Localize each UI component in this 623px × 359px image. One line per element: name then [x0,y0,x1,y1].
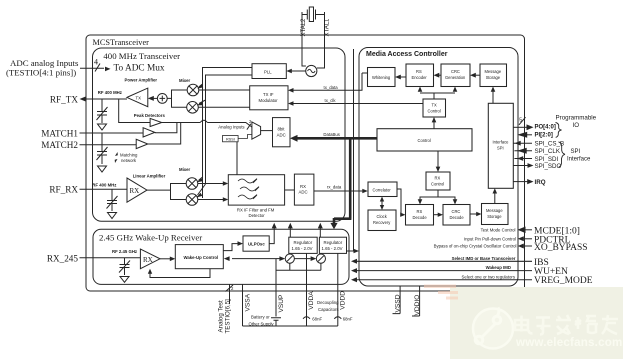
mixer M2 [187,102,199,114]
svg-text:Power Amplifier: Power Amplifier [125,78,158,83]
svg-text:Control: Control [418,138,431,143]
wire summer to TX amp [148,96,158,101]
bus DataBus thick [290,135,377,142]
svg-text:XO_BYPASS: XO_BYPASS [534,243,588,253]
wire D3 out [148,123,181,145]
wire RSdec to CRCdec [434,213,444,217]
pin SPI_CS_B [513,141,564,148]
svg-text:TESTIO[6,5]: TESTIO[6,5] [225,299,232,334]
svg-text:8bit: 8bit [278,127,286,132]
svg-text:Decode: Decode [413,215,428,220]
svg-text:RF_RX: RF_RX [49,185,78,195]
wire D1 out [162,120,252,127]
svg-text:Analog Inputs: Analog Inputs [218,125,244,130]
svg-text:Interface: Interface [493,140,510,145]
svg-text:Capacitors: Capacitors [318,307,339,312]
brace spi interface [559,142,566,167]
svg-text:Correlator: Correlator [373,187,392,192]
svg-text:VSUP: VSUP [278,294,285,313]
box Interface SPI [488,103,513,188]
svg-text:SPI: SPI [571,149,581,155]
switch SW1 [285,253,294,264]
svg-text:Linear Amplifier: Linear Amplifier [133,174,166,179]
svg-text:Storage: Storage [486,75,501,80]
svg-text:2.45 GHz Wake-Up Receiver: 2.45 GHz Wake-Up Receiver [99,232,202,242]
svg-text:RS: RS [417,209,423,214]
box PLL [252,64,286,79]
wire LO line B [206,75,253,184]
mux analog inputs [252,122,261,139]
svg-text:5: 5 [519,118,522,124]
mixer M4 [186,194,198,206]
wire MsgStor to CRCgen [470,73,480,78]
capacitor tunable at RX_245 [119,258,130,283]
wire reg1 up arrow [288,223,293,237]
wire WakeUpCtrl to ULPOsc [223,241,243,250]
pin VREG_MODE [351,274,593,286]
wire RXctrl to RSdec CRCdec [418,190,458,205]
wire LO arrow to M3 [197,177,203,182]
wire tx_data [288,73,368,93]
svg-text:VDDA: VDDA [308,291,315,310]
glyph you [602,315,618,334]
watermark red remains [424,285,458,300]
wire ground rail [243,325,338,327]
svg-text:XTAL2: XTAL2 [301,18,307,37]
detector D3 [136,139,148,148]
wire CRCgen to RSenc [434,73,442,78]
pin ADC analog inputs [6,58,165,78]
crystal Y1 [302,10,325,20]
pin IRQ [513,179,545,186]
wire Correlator to ClockRecovery double arrow [380,197,384,211]
wire regulator out to MAC [347,249,360,254]
box RS Decode [406,205,434,226]
svg-text:Peak Detectors: Peak Detectors [134,113,166,118]
svg-text:network: network [121,158,137,163]
svg-text:RX: RX [435,176,441,181]
bus slash 2 [247,119,252,130]
svg-text:Modulator: Modulator [259,98,279,103]
glyph zi [536,318,551,335]
wire LO arrow to M2 [197,100,206,105]
box RX Control [426,172,450,190]
box RX ADC [294,174,314,205]
capacitor decoupling 1 [303,317,310,319]
logo circle [473,309,513,349]
svg-text:1.65 - 2.0V: 1.65 - 2.0V [292,246,313,251]
svg-text:Programmable: Programmable [556,115,597,122]
wire supply to switch1 [276,256,285,261]
box CRC Decode [443,205,470,226]
wire TXctrl to RSenc CRCgen [418,87,458,100]
wire Control to TXctrl [432,117,437,129]
svg-text:400 MHz Transceiver: 400 MHz Transceiver [103,51,180,61]
box Message Storage bottom [482,204,509,225]
wire LO arrow to M4 [196,184,205,198]
svg-text:Whitening: Whitening [372,75,391,80]
svg-text:PLL: PLL [264,69,272,74]
pin VDDIO [412,286,421,316]
svg-text:SPI_CS_B: SPI_CS_B [535,141,565,148]
pin PI[2:0] [517,132,553,139]
pin SPI_CLK [514,148,560,155]
svg-text:IRQ: IRQ [535,179,546,186]
pin SPI_SDI [514,156,558,163]
svg-text:Control: Control [431,182,444,187]
wire switch common rail [276,264,321,271]
svg-text:Select IMD or Base Transceiver: Select IMD or Base Transceiver [452,256,516,261]
svg-text:Media Access Controller: Media Access Controller [366,51,448,58]
svg-text:(TESTIO[4:1 pins]): (TESTIO[4:1 pins]) [6,68,76,78]
svg-text:MATCH2: MATCH2 [41,140,78,150]
wire summer to mixers [167,90,187,107]
pin SPI_SDO [513,163,561,170]
svg-text:ULPOsc: ULPOsc [248,242,265,247]
wire RF tap to D1 [119,99,150,123]
svg-text:RF 400 MHz: RF 400 MHz [98,90,122,95]
brace programmable io [556,123,562,138]
wire mux to ADC [261,130,273,132]
svg-text:VREG_MODE: VREG_MODE [534,276,593,286]
svg-text:68nF: 68nF [343,316,353,321]
box TX Control [423,99,446,117]
capacitor tunable at RF_TX [97,99,108,130]
svg-text:CRC: CRC [451,69,460,74]
svg-text:Analog Test: Analog Test [218,300,225,333]
pin VDDA [307,253,316,326]
box Control [377,129,472,151]
svg-text:PO[4:0]: PO[4:0] [535,125,556,131]
wire ULPOsc up arrow [269,223,277,244]
capacitor tunable at RF_RX [107,189,118,218]
svg-text:4: 4 [94,58,98,67]
svg-text:Storage: Storage [487,214,502,219]
svg-text:Wakeup IMD: Wakeup IMD [486,265,511,270]
svg-text:VDDD: VDDD [339,291,346,310]
svg-text:Control: Control [428,109,441,114]
svg-text:Input Pin Pull-down Control: Input Pin Pull-down Control [464,236,516,241]
glyph fa [556,315,571,334]
svg-text:TX: TX [136,95,142,100]
block Media Access Controller [359,48,518,287]
svg-text:To ADC Mux: To ADC Mux [114,63,165,73]
pin VDDD [338,253,347,326]
svg-text:XTAL1: XTAL1 [324,18,330,37]
svg-text:RX_245: RX_245 [47,253,79,263]
wire RSSI down to filter [236,142,238,175]
svg-text:ADC: ADC [277,133,286,138]
svg-text:Bypass of on-chip Crystal Osci: Bypass of on-chip Crystal Oscillator Con… [434,244,517,249]
box RS Encoder [406,64,434,87]
bus arrow into wakeup [330,218,337,229]
wire RX to WakeUp Control [160,257,175,262]
svg-text:Wake-Up Control: Wake-Up Control [184,255,219,260]
svg-text:MCSTransceiver: MCSTransceiver [93,38,150,47]
wire MsgStor bottom to SPI [493,188,498,203]
svg-text:RX: RX [143,256,153,264]
svg-text:tx_clk: tx_clk [325,98,337,103]
svg-text:Test Mode Control: Test Mode Control [481,227,516,232]
wire Control to RXctrl [436,151,441,172]
wire feedback loop [148,269,210,278]
wire RSenc to Whitening [395,75,406,80]
svg-text:SPI_SDI: SPI_SDI [535,156,559,163]
wire XTAL1 [317,12,325,68]
capacitor decoupling 2 [334,317,341,319]
wire M1 to TXIF [199,89,250,91]
svg-text:IO: IO [573,122,580,129]
svg-text:CRC: CRC [452,209,461,214]
pin VSSD [393,286,402,314]
amplifier RX [127,178,147,202]
pin RF_TX [50,95,127,105]
wire XTAL2 [302,12,306,66]
svg-text:VSSA: VSSA [245,293,252,311]
box Regulator 2 [319,237,346,253]
svg-text:ADC: ADC [299,190,308,195]
block 2.45 GHz Wake-Up Receiver [93,229,349,284]
box 8bit ADC [273,118,291,147]
svg-text:ADC analog Inputs: ADC analog Inputs [10,58,79,68]
amplifier RX wakeup [140,249,160,269]
svg-text:Select one or two regulators: Select one or two regulators [461,274,515,279]
svg-text:Generation: Generation [445,75,466,80]
box RSSI [223,136,239,142]
box Whitening [368,68,396,87]
pin TESTIO[6:5] [218,284,235,333]
svg-text:Mixer: Mixer [179,78,191,83]
box Correlator [368,182,397,197]
svg-text:Regulator: Regulator [294,240,313,245]
oscillator circle [306,65,317,76]
wire M2 to TXIF [198,106,249,108]
svg-text:Message: Message [485,69,502,74]
bus DataBus vertical branch thick [334,140,351,219]
detector D1 [150,118,162,126]
wire filter to RX ADC [285,189,295,191]
pin XO_BYPASS [434,243,588,253]
svg-text:tx_data: tx_data [324,85,339,90]
svg-text:RF 2.45 GHz: RF 2.45 GHz [112,249,137,254]
detector D2 [143,128,155,137]
wire tx_clk [288,101,423,106]
svg-text:Decoupling: Decoupling [317,300,339,305]
svg-text:RF 400 MHz: RF 400 MHz [92,183,116,188]
svg-text:DataBus: DataBus [323,132,339,137]
svg-text:Message: Message [486,208,503,213]
svg-text:RF_TX: RF_TX [50,95,78,105]
box Message Storage top [480,64,507,87]
svg-text:rx_data: rx_data [327,185,342,190]
svg-text:RSSI: RSSI [226,138,235,142]
svg-text:TX: TX [432,103,438,108]
svg-text:PI[2:0]: PI[2:0] [535,132,553,138]
glyph dian [515,316,533,334]
box TX IF Modulator [250,86,288,110]
wire reg2 up arrow [318,223,323,237]
wire LO arrow to M1 [197,84,203,89]
amplifier TX [127,88,148,107]
svg-text:SPI_SDO: SPI_SDO [535,163,562,170]
svg-text:Recovery: Recovery [373,220,391,225]
svg-text:SPI: SPI [497,146,504,151]
svg-text:Interface: Interface [567,156,591,162]
wire LO line A [203,68,253,199]
svg-text:VSSD: VSSD [394,294,401,312]
svg-text:Decode: Decode [450,215,465,220]
svg-text:Encoder: Encoder [412,75,428,80]
pin RX_245 [47,253,141,263]
label Matching network [115,152,138,163]
pin WU+EN [351,265,568,277]
box Wake-Up Control [175,245,223,269]
mixer M3 [186,178,198,190]
svg-text:RS: RS [416,69,422,74]
chip outer box MCSTransceiver [86,35,525,291]
svg-text:SPI_CLK: SPI_CLK [535,148,561,155]
wire supply line into WakeUpCtrl [224,256,276,261]
box CRC Generation [441,64,470,87]
wire rx_data [314,189,368,194]
pin MATCH1 [41,128,143,138]
wire M3 to filter [198,181,229,186]
svg-text:RX IF Filter and FM: RX IF Filter and FM [237,208,275,213]
switch SW2 [316,253,325,264]
svg-text:1.65 - 2.0V: 1.65 - 2.0V [322,246,343,251]
svg-text:Battery or: Battery or [251,314,270,319]
pin RF_RX [49,185,127,195]
wire osc to PLL [286,69,305,74]
svg-text:www.elecfans.com: www.elecfans.com [515,336,623,349]
wire SPI to MsgStor top [491,87,496,104]
pin MCDE[1:0] [481,226,580,236]
box Clock Recovery [368,210,396,231]
box Regulator 1 [289,237,317,253]
pin VSUP [276,259,285,317]
pin MATCH2 [41,140,136,150]
box ULPOsc [243,236,269,251]
svg-text:MATCH1: MATCH1 [41,128,78,138]
svg-text:68nF: 68nF [312,316,322,321]
mixer M1 [187,84,199,96]
svg-text:RX: RX [300,184,306,189]
pin PO[4:0] [513,117,556,130]
battery B1 [271,318,281,326]
wire clock feed vertical [353,49,355,251]
pin IBS [351,256,549,268]
box RX IF Filter and FM Detector [228,175,284,205]
wire D2 out [155,123,177,133]
wire CRCdec to MsgStor bottom [470,212,482,216]
svg-text:Mixer: Mixer [179,167,191,172]
capacitor matching network [97,133,108,172]
svg-text:RX: RX [130,187,140,195]
wire switch1 to switch2 [294,256,316,261]
svg-text:Detector: Detector [249,213,266,218]
pin PDCTRL [464,235,571,245]
pin VSSA [243,284,252,326]
svg-text:Regulator: Regulator [324,240,343,245]
svg-text:VDDIO: VDDIO [414,295,421,316]
block 400 MHz Transceiver [93,48,346,221]
glyph shao [575,316,598,333]
wire Correlator to RSdec [397,189,406,217]
svg-text:TX IF: TX IF [263,92,274,97]
wire RX amp to mixers [147,184,186,200]
summer circle [157,94,167,104]
wire M4 to filter [198,197,229,202]
svg-text:Clock: Clock [377,214,388,219]
